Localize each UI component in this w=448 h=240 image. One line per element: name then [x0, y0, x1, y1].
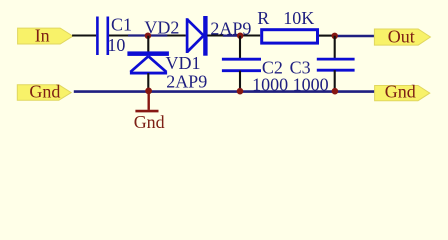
capacitor C1 [97, 17, 107, 56]
wire VD1 to ground node D [147, 73, 149, 91]
wire C3 to node F [334, 70, 336, 91]
node D junction [145, 88, 152, 95]
wire stub at node A [128, 34, 167, 36]
port Gnd right [375, 81, 430, 101]
wire stub at node B [223, 34, 240, 36]
svg-text:R: R [257, 8, 269, 28]
svg-text:Gnd: Gnd [29, 81, 60, 101]
node F junction [332, 88, 339, 95]
svg-text:1000 1000: 1000 1000 [252, 75, 329, 95]
wire node C to C3 [334, 36, 336, 59]
svg-text:Out: Out [388, 27, 415, 47]
svg-text:2AP9: 2AP9 [166, 72, 207, 92]
capacitor C2 [222, 59, 261, 70]
svg-text:C1: C1 [111, 15, 132, 35]
svg-text:Gnd: Gnd [134, 112, 165, 132]
svg-text:Gnd: Gnd [385, 81, 416, 101]
resistor R [262, 30, 318, 43]
wire R to node C [319, 35, 335, 37]
wire VD2 to node B [207, 34, 260, 36]
wire C2 to node E [239, 71, 241, 92]
wire In to C1 [72, 34, 96, 36]
svg-text:VD1: VD1 [166, 53, 201, 73]
wire node B to C2 [239, 36, 241, 59]
node B junction [237, 33, 243, 39]
diode VD1 [127, 51, 168, 73]
svg-text:10K: 10K [283, 8, 314, 28]
ground power port [135, 91, 158, 111]
node C junction [332, 33, 338, 39]
port Out [374, 27, 430, 47]
node A junction [145, 33, 151, 39]
port Gnd left [17, 81, 71, 101]
wire C1 to node A [109, 34, 186, 36]
node E junction [237, 88, 244, 95]
capacitor C3 [317, 59, 355, 70]
wire node A to VD1 [147, 36, 149, 52]
svg-text:10: 10 [107, 35, 125, 55]
wire node C to Out port [335, 35, 375, 37]
wire ground rail [74, 90, 375, 93]
svg-text:VD2: VD2 [144, 17, 179, 37]
diode VD2 [187, 16, 207, 56]
svg-text:In: In [35, 25, 50, 45]
port In [18, 25, 73, 45]
